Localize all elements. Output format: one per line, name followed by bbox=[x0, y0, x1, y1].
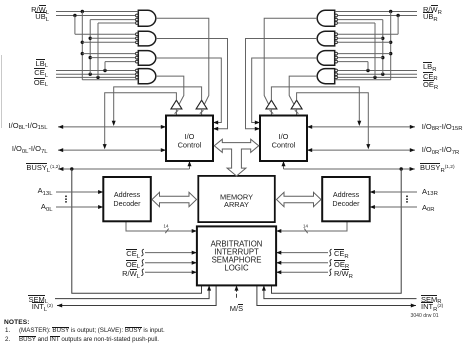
arrow I/O0-7R into box bbox=[307, 148, 312, 152]
pin label I/O0L-I/O7L bbox=[12, 145, 48, 153]
wire UBL pin bbox=[56, 15, 136, 17]
input bubble G4L @y=74.2 bbox=[136, 73, 139, 76]
break squiggle R/WL bbox=[141, 269, 144, 276]
wire G4L output bbox=[156, 76, 184, 104]
svg-text:Decoder: Decoder bbox=[332, 199, 360, 208]
wire I/O0-7L bbox=[58, 149, 166, 151]
stub under T1L bbox=[175, 109, 177, 116]
wire BUSYL into I/O control bbox=[189, 161, 191, 169]
arrow I/O8-15R into box bbox=[307, 125, 312, 129]
arrow I/O0-7L into box bbox=[161, 148, 166, 152]
bus slash under T2L bbox=[200, 110, 204, 113]
AND gate G2L bbox=[138, 31, 156, 46]
arrow onto I/O8-15R wire bbox=[357, 121, 361, 126]
rail UBR vertical bbox=[397, 16, 399, 35]
pin label I/O8L-I/O15L bbox=[9, 122, 48, 130]
wire T1R output to I/O0-7R bbox=[297, 93, 369, 146]
break squiggle OEL bbox=[141, 259, 144, 266]
junction UBL bbox=[73, 14, 76, 17]
wire G4R output bbox=[289, 76, 317, 104]
wire INTR bbox=[257, 285, 416, 305]
arrow G2R into I/O control bbox=[255, 127, 260, 131]
note 2 bbox=[5, 336, 10, 343]
arrow BUSYL pin bbox=[58, 167, 63, 171]
arrow A13L into decoder bbox=[98, 190, 103, 194]
arrow onto I/O0-7R wire bbox=[366, 144, 370, 149]
wire CER to G1 in3 bbox=[338, 19, 383, 21]
net label OER at arbitration bbox=[334, 261, 349, 269]
break squiggle CER bbox=[329, 249, 332, 256]
svg-text:ARRAY: ARRAY bbox=[224, 200, 249, 209]
fat arrow decoder-memory left bbox=[152, 192, 197, 206]
arrow BUSYR pin bbox=[410, 167, 415, 171]
wire R/WR pin bbox=[335, 11, 417, 13]
wire INTL bbox=[57, 285, 216, 305]
I/O Control box right U2 bbox=[260, 116, 307, 162]
wire R/WL pin bbox=[56, 11, 138, 13]
wire R/WR to G2 in3 bbox=[338, 41, 391, 43]
arrow bus into arbitration L bbox=[192, 229, 197, 233]
AND gate G1L bbox=[138, 10, 156, 26]
pin label OEL bbox=[34, 79, 48, 87]
arrow INTR pin bbox=[411, 304, 416, 308]
arrow I/O0-7R out bbox=[410, 148, 415, 152]
arrow bus into arbitration R bbox=[276, 229, 281, 233]
input bubble G4R @y=70.5 bbox=[335, 69, 338, 72]
wire OER to arbitration bbox=[276, 262, 328, 264]
input bubble G3R @y=61.6 bbox=[335, 60, 338, 63]
pin label R/WR bbox=[423, 6, 442, 14]
input bubble G3R @y=53.6 bbox=[335, 52, 338, 55]
buffer triangle T1R bbox=[291, 100, 302, 109]
wire CEL to arbitration bbox=[145, 252, 197, 254]
input bubble G3L @y=61.6 bbox=[136, 60, 139, 63]
input bubble G4L @y=70.5 bbox=[136, 69, 139, 72]
input bubble G2R @y=38.3 bbox=[335, 37, 338, 40]
bus slash under T1R bbox=[295, 110, 299, 113]
pin label INTR(2) bbox=[421, 303, 443, 311]
wire CEL to G3 in2 bbox=[90, 57, 135, 59]
input bubble G4L @y=77.4 bbox=[136, 76, 139, 79]
net label OEL at arbitration bbox=[126, 261, 140, 269]
AND gate G3R bbox=[317, 51, 335, 66]
wire BUSYL down to arbitration bbox=[72, 169, 202, 293]
buffer triangle T1L bbox=[171, 100, 182, 109]
net label R/WL at arbitration bbox=[122, 270, 140, 278]
wire LBL pin bbox=[56, 70, 136, 72]
address ellipsis dots L bbox=[65, 195, 67, 202]
junction R/WR bbox=[389, 10, 392, 13]
pin label I/O8R-I/O15R bbox=[422, 123, 463, 131]
input bubble G1L @y=15.5 bbox=[136, 14, 139, 17]
address ellipsis dots R bbox=[406, 195, 408, 202]
net label M/S bbox=[230, 305, 243, 313]
svg-text:LOGIC: LOGIC bbox=[224, 264, 249, 273]
pin label BUSYL(1,2) bbox=[26, 164, 60, 172]
wire R/WL to G3 in1 bbox=[82, 53, 135, 55]
input bubble G4R @y=77.4 bbox=[335, 76, 338, 79]
wire A0R bbox=[370, 206, 417, 208]
wire OER to G1 in4 bbox=[338, 22, 376, 24]
AND gate G2R bbox=[317, 31, 335, 46]
arrow CEL into arbitration bbox=[192, 251, 197, 255]
svg-text:Control: Control bbox=[272, 141, 296, 150]
junction OER bbox=[373, 76, 376, 79]
input bubble G1L @y=23.0 bbox=[136, 22, 139, 25]
drawing number bbox=[411, 313, 439, 319]
AND gate G4L bbox=[138, 69, 156, 84]
arrow G3R into I/O control bbox=[255, 121, 260, 125]
pin label OER bbox=[423, 81, 438, 89]
notes heading bbox=[4, 319, 30, 326]
wire LBR pin bbox=[338, 70, 418, 72]
junction R/WR-G2 bbox=[389, 41, 392, 44]
wire G1L output bbox=[156, 18, 209, 104]
Address Decoder box left U4 bbox=[103, 177, 151, 221]
wire A13R bbox=[370, 191, 417, 193]
arrow M/S into arbitration bbox=[235, 285, 239, 290]
label I/O Control left bbox=[178, 132, 202, 149]
bus slash under T1L bbox=[175, 110, 179, 113]
wire CER pin bbox=[338, 73, 418, 75]
wire CEL to G1 in3 bbox=[90, 19, 135, 21]
pin label A13L bbox=[38, 187, 53, 195]
arrow A0L into decoder bbox=[98, 205, 103, 209]
AND gate G1R bbox=[317, 10, 335, 26]
junction BUSYR bbox=[400, 167, 403, 170]
input bubble G2R @y=34.2 bbox=[335, 33, 338, 36]
arrow I/O8-15R out bbox=[410, 125, 415, 129]
bus slash 14 R bbox=[304, 229, 307, 234]
junction R/WL bbox=[81, 10, 84, 13]
wire G1R output bbox=[264, 18, 317, 104]
pin label A13R bbox=[422, 188, 438, 196]
junction OEL bbox=[96, 76, 99, 79]
input bubble G3L @y=53.6 bbox=[136, 52, 139, 55]
stub under T2R bbox=[270, 109, 272, 116]
buffer triangle T2R bbox=[266, 100, 277, 109]
label I/O Control right bbox=[272, 132, 296, 149]
rail CEL vertical bbox=[89, 20, 91, 75]
pin label CER bbox=[423, 73, 438, 81]
junction UBR bbox=[396, 14, 399, 17]
stub under T2L bbox=[201, 109, 203, 116]
arrow onto I/O8-15L wire bbox=[112, 121, 116, 126]
wire UBR to G2 in1 bbox=[338, 33, 399, 35]
wire G2L output bbox=[156, 39, 228, 129]
input bubble G3R @y=57.6 bbox=[335, 56, 338, 59]
input bubble G2L @y=42.3 bbox=[136, 41, 139, 44]
arrow I/O8-15L into box bbox=[161, 125, 166, 129]
break squiggle CEL bbox=[141, 249, 144, 256]
svg-text:Control: Control bbox=[178, 141, 202, 150]
arrow I/O8-15L out bbox=[58, 125, 63, 129]
input bubble G4R @y=74.2 bbox=[335, 73, 338, 76]
wire A13L bbox=[56, 191, 103, 193]
svg-text:14: 14 bbox=[303, 224, 308, 229]
Address Decoder box right U5 bbox=[322, 177, 370, 221]
wire BUSYR bbox=[284, 168, 415, 170]
net label R/WR at arbitration bbox=[334, 270, 353, 278]
wire OEL pin bbox=[56, 76, 136, 78]
wire SEML bbox=[55, 285, 209, 298]
arrow SEML into arbitration bbox=[207, 285, 211, 290]
junction CER bbox=[381, 73, 384, 76]
junction CER-G2 bbox=[381, 37, 384, 40]
note 1 bbox=[5, 327, 10, 334]
arrow I/O0-7L out bbox=[58, 148, 63, 152]
wire A0L bbox=[56, 206, 103, 208]
junction LBR bbox=[366, 69, 369, 72]
pin label A0R bbox=[422, 204, 435, 212]
wire LBR to G3 in3 bbox=[338, 61, 369, 63]
wire R/WR to G3 in1 bbox=[338, 53, 391, 55]
input bubble G1R @y=15.5 bbox=[335, 14, 338, 17]
wire R/WL to G4 in4 bbox=[82, 79, 138, 81]
wire UBR pin bbox=[338, 15, 418, 17]
input bubble G1L @y=19.6 bbox=[136, 18, 139, 21]
junction CEL bbox=[89, 73, 92, 76]
wire CER to G2 in2 bbox=[338, 37, 383, 39]
arrow A0R into decoder bbox=[370, 205, 375, 209]
net label CEL at arbitration bbox=[126, 250, 140, 258]
wire LBL to G3 in3 bbox=[105, 61, 136, 63]
bus slash under T2R bbox=[270, 110, 274, 113]
label Address Decoder right bbox=[332, 190, 360, 208]
rail OER vertical bbox=[374, 23, 376, 77]
Arbitration Interrupt Semaphore Logic box U6 bbox=[197, 226, 276, 285]
junction CER-G3 bbox=[381, 56, 384, 59]
rail UBL vertical bbox=[74, 16, 76, 35]
pin label LBR bbox=[423, 63, 436, 71]
wire OEL to G1 in4 bbox=[98, 22, 136, 24]
svg-text:14: 14 bbox=[164, 224, 169, 229]
svg-text:Decoder: Decoder bbox=[113, 199, 141, 208]
wire R/WL to arbitration bbox=[145, 271, 197, 273]
junction R/WL-G2 bbox=[81, 41, 84, 44]
wire R/WL to G2 in3 bbox=[82, 41, 135, 43]
arrow SEMR into arbitration bbox=[262, 285, 266, 290]
arrow G3L into I/O control bbox=[213, 121, 218, 125]
I/O Control box left U1 bbox=[166, 116, 213, 162]
junction LBL bbox=[103, 69, 106, 72]
net label CER at arbitration bbox=[334, 250, 349, 258]
wire I/O0-7R bbox=[307, 149, 415, 151]
wire I/O8-15R bbox=[307, 126, 415, 128]
fat arrow I/O controls and down to memory array bbox=[214, 139, 258, 176]
wire M/S break dash bbox=[236, 294, 238, 298]
pin label BUSYR(1,2) bbox=[420, 164, 455, 172]
junction CEL-G3 bbox=[89, 56, 92, 59]
wire BUSYL bbox=[58, 168, 189, 170]
pin label UBL bbox=[35, 13, 49, 21]
arrow onto I/O0-7L wire bbox=[103, 144, 107, 149]
rail OEL vertical bbox=[97, 23, 99, 77]
label Arbitration logic bbox=[211, 239, 263, 272]
wire UBL to G2 in1 bbox=[75, 33, 136, 35]
input bubble G2L @y=34.2 bbox=[136, 33, 139, 36]
wire G3L output bbox=[156, 58, 222, 123]
junction CEL-G2 bbox=[89, 37, 92, 40]
label Memory Array bbox=[220, 192, 253, 209]
wire R/WR to arbitration bbox=[276, 271, 328, 273]
notes section bbox=[0, 0, 1, 1]
arrow OEL into arbitration bbox=[192, 261, 197, 265]
wire address bus to arbitration R bbox=[276, 221, 347, 231]
break squiggle OER bbox=[329, 259, 332, 266]
wire G3R output bbox=[252, 58, 318, 123]
pin label CEL bbox=[34, 69, 48, 77]
junction BUSYL bbox=[70, 167, 73, 170]
wire CEL to G2 in2 bbox=[90, 37, 135, 39]
pin label SEMR bbox=[421, 296, 442, 304]
wire CER to arbitration bbox=[276, 252, 328, 254]
label Address Decoder left bbox=[113, 190, 141, 208]
pin label R/WL bbox=[31, 6, 49, 14]
arrow BUSYR into I/O control bbox=[282, 161, 286, 166]
buffer triangle T2L bbox=[196, 100, 207, 109]
wire I/O8-15L bbox=[58, 126, 166, 128]
rail R/WL vertical bbox=[81, 12, 83, 80]
wire BUSYR down to arbitration bbox=[272, 169, 402, 293]
rail R/WR vertical bbox=[390, 12, 392, 80]
wire T2L output to I/O8-15L bbox=[114, 87, 202, 122]
wire CEL pin bbox=[56, 73, 136, 75]
Memory Array box U3 bbox=[198, 176, 274, 222]
wire CER to G3 in2 bbox=[338, 57, 383, 59]
wire M/S bbox=[236, 288, 238, 292]
stub under T1R bbox=[296, 109, 298, 116]
bus slash 14 L bbox=[165, 229, 168, 234]
arrow R/WR into arbitration bbox=[276, 270, 281, 274]
pin label INTL(2) bbox=[32, 303, 53, 311]
arrow G2L into I/O control bbox=[213, 127, 218, 131]
input bubble G2L @y=38.3 bbox=[136, 37, 139, 40]
input bubble G3L @y=57.6 bbox=[136, 56, 139, 59]
junction R/WL-G3 bbox=[81, 52, 84, 55]
wire T1L output to I/O0-7L bbox=[105, 93, 177, 146]
wire OER pin bbox=[338, 76, 418, 78]
break squiggle R/WR bbox=[329, 269, 332, 276]
arrow A13R into decoder bbox=[370, 190, 375, 194]
wire address bus to arbitration L bbox=[126, 221, 197, 231]
pin label SEML bbox=[28, 296, 48, 304]
AND gate G4R bbox=[317, 69, 335, 84]
input bubble G1R @y=23.0 bbox=[335, 22, 338, 25]
arrow CER into arbitration bbox=[276, 251, 281, 255]
junction R/WR-G3 bbox=[389, 52, 392, 55]
page edge artifact bbox=[1, 55, 3, 128]
rail CER vertical bbox=[382, 20, 384, 75]
wire OEL to arbitration bbox=[145, 262, 197, 264]
pin label A0L bbox=[41, 203, 53, 211]
wire R/WR to G4 in4 bbox=[335, 79, 391, 81]
pin label UBR bbox=[423, 13, 438, 21]
rail LBL vertical bbox=[104, 62, 106, 71]
wire T2R output to I/O8-15R bbox=[271, 87, 359, 122]
wire BUSYR into I/O control bbox=[283, 161, 285, 169]
rail LBR vertical bbox=[367, 62, 369, 71]
arrow R/WL into arbitration bbox=[192, 270, 197, 274]
arrow INTL pin bbox=[57, 304, 62, 308]
wire G2R output bbox=[246, 39, 318, 129]
pin label I/O0R-I/O7R bbox=[422, 146, 460, 154]
arrow OER into arbitration bbox=[276, 261, 281, 265]
arrow BUSYL into I/O control bbox=[188, 161, 192, 166]
AND gate G3L bbox=[138, 51, 156, 66]
fat arrow decoder-memory right bbox=[277, 192, 322, 206]
input bubble G2R @y=42.3 bbox=[335, 41, 338, 44]
wire SEMR bbox=[264, 285, 417, 298]
pin label LBL bbox=[36, 60, 48, 68]
input bubble G1R @y=19.6 bbox=[335, 18, 338, 21]
